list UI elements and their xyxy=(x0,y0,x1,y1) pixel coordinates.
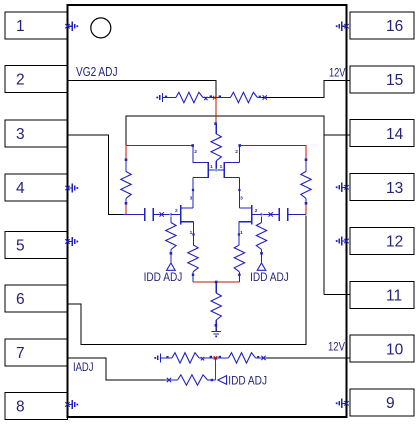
wire R6 to adjust arrow xyxy=(170,250,173,263)
wire R10 to ground xyxy=(215,320,218,332)
resistor R13 IADJ xyxy=(178,375,208,385)
svg-text:IADJ: IADJ xyxy=(73,360,94,374)
wire stub pin 11 xyxy=(324,294,350,296)
label 12V top xyxy=(329,66,346,80)
wire pin 6 to right gate node xyxy=(68,216,307,345)
node rail right resistor top xyxy=(305,158,308,171)
node R2 to 12V wire xyxy=(257,95,267,99)
wire gate node to R6 xyxy=(170,217,172,223)
pin 9 port symbol xyxy=(336,399,349,408)
wire stub pin 14 xyxy=(324,134,350,136)
wire top divider to pin 15 12V xyxy=(257,81,350,98)
label 12V bottom xyxy=(328,340,345,354)
svg-text:12: 12 xyxy=(386,234,403,251)
svg-text:2: 2 xyxy=(235,149,238,155)
svg-text:7: 7 xyxy=(16,345,25,362)
red wire drain rail right xyxy=(239,146,306,159)
resistor R1 xyxy=(176,92,203,102)
label IDD ADJ bottom xyxy=(228,373,267,387)
pin 16 port symbol xyxy=(336,22,349,31)
node right drain bias bottom xyxy=(305,198,308,204)
label IDD ADJ right xyxy=(250,270,289,284)
pin 10 box xyxy=(350,335,414,362)
pin 5 port symbol xyxy=(65,237,78,246)
wire and junction VG2 divider xyxy=(203,95,231,100)
pin 8 port symbol xyxy=(65,400,78,409)
red wire source rail xyxy=(193,281,239,283)
capacitor C1 xyxy=(123,208,171,221)
svg-text:16: 16 xyxy=(386,18,403,35)
wire R13 to wiper node xyxy=(208,379,216,381)
resistor R4 left drain bias xyxy=(121,171,131,198)
svg-text:9: 9 xyxy=(386,395,395,412)
node R12 to pin 10 wire xyxy=(256,356,267,360)
svg-text:2: 2 xyxy=(255,208,258,214)
ground xyxy=(212,332,221,338)
svg-text:IDD ADJ: IDD ADJ xyxy=(228,373,267,387)
wire lower divider to pin 10 12V xyxy=(266,357,350,359)
adjust arrow right IDD xyxy=(257,263,266,270)
resistor R12 xyxy=(229,353,256,363)
IC body U1 xyxy=(68,5,347,417)
transistor Q4 xyxy=(238,196,258,245)
resistor R11 xyxy=(172,353,199,363)
wire gate node to R7 xyxy=(261,217,263,223)
svg-text:12V: 12V xyxy=(329,66,346,80)
pin 12 box xyxy=(350,227,414,254)
resistor R8 left source xyxy=(188,245,198,272)
pin 2 box xyxy=(5,66,68,93)
resistor R6 IDD ADJ left xyxy=(166,223,176,250)
wire pin 7 IADJ to lower divider xyxy=(68,358,166,380)
svg-text:11: 11 xyxy=(386,288,402,305)
gate node upper FET pair xyxy=(208,164,224,172)
pin 15 box xyxy=(350,66,414,93)
pin 6 box xyxy=(5,285,68,312)
pin 8 box xyxy=(5,393,68,420)
wire R3 to gates xyxy=(215,161,217,170)
wire pin 3 to left gate node xyxy=(68,135,124,215)
svg-text:1: 1 xyxy=(240,230,243,236)
transistor Q1 xyxy=(191,144,208,208)
svg-text:1: 1 xyxy=(220,164,223,170)
resistor R3 gate bias xyxy=(211,134,221,161)
svg-text:15: 15 xyxy=(386,72,403,89)
svg-text:1: 1 xyxy=(190,230,193,236)
label IDD ADJ left xyxy=(144,270,183,284)
resistor R10 tail xyxy=(211,293,221,320)
wire IADJ to R13 xyxy=(166,378,178,382)
svg-text:8: 8 xyxy=(16,399,25,416)
svg-text:5: 5 xyxy=(16,238,25,255)
transistor Q2 xyxy=(224,144,241,208)
transistor Q3 xyxy=(175,196,195,245)
pin 13 box xyxy=(350,174,414,201)
pin 4 port symbol xyxy=(65,183,78,192)
capacitor C2 xyxy=(262,208,307,221)
svg-text:2: 2 xyxy=(16,72,25,89)
svg-text:1: 1 xyxy=(16,18,25,35)
node rail left resistor top xyxy=(125,158,128,171)
red wire drain rail left xyxy=(126,146,193,159)
pin 4 box xyxy=(5,174,68,201)
pin 13 port symbol xyxy=(336,183,349,192)
pin 3 box xyxy=(5,120,68,147)
wire VG2 port to R1 xyxy=(163,96,176,98)
svg-text:6: 6 xyxy=(16,291,25,308)
svg-text:3: 3 xyxy=(190,196,193,202)
svg-text:3: 3 xyxy=(240,196,243,202)
wire lower port to R11 xyxy=(161,356,173,358)
pin 14 box xyxy=(350,120,414,147)
node gate bias top xyxy=(214,122,217,133)
wire R9 to source rail xyxy=(238,272,240,282)
svg-text:13: 13 xyxy=(386,180,403,197)
wire R8 to source rail xyxy=(192,272,194,282)
pin 7 box xyxy=(5,339,68,366)
pin 16 box xyxy=(350,12,414,39)
pin 9 box xyxy=(350,389,414,416)
pin 1 box xyxy=(5,12,68,39)
red wire lower divider tap xyxy=(215,358,217,380)
svg-text:1: 1 xyxy=(210,164,213,170)
resistor R7 IDD ADJ right xyxy=(256,223,266,250)
svg-text:12V: 12V xyxy=(328,340,345,354)
svg-text:3: 3 xyxy=(16,126,25,143)
node source rail center xyxy=(215,281,218,293)
resistor R9 right source xyxy=(234,245,244,272)
svg-text:2: 2 xyxy=(175,208,178,214)
wire pin 2 VG2 ADJ to top divider xyxy=(68,81,217,98)
svg-text:2: 2 xyxy=(194,149,197,155)
gate node Q3 xyxy=(169,213,181,217)
red wire left bias resistor bottom xyxy=(125,204,127,214)
pin-1 indicator circle xyxy=(91,18,111,38)
svg-text:14: 14 xyxy=(386,126,404,143)
label VG2 ADJ xyxy=(76,64,118,79)
voltage source port VG2 xyxy=(156,93,162,102)
label IADJ xyxy=(73,360,94,374)
pin 1 port symbol xyxy=(65,22,78,31)
adjust arrow left IDD xyxy=(167,263,176,270)
red wire top divider tap xyxy=(215,98,217,123)
svg-text:VG2 ADJ: VG2 ADJ xyxy=(76,64,118,79)
gate node Q4 xyxy=(252,213,264,217)
voltage source port lower 12V xyxy=(154,353,160,362)
svg-text:10: 10 xyxy=(386,341,404,358)
svg-text:IDD ADJ: IDD ADJ xyxy=(144,270,183,284)
wire rail to pins 14 and 11 xyxy=(126,116,324,295)
pin 5 box xyxy=(5,232,68,259)
node left drain bias bottom xyxy=(125,198,128,204)
wiper arrow IDD ADJ xyxy=(218,376,227,385)
pin 12 port symbol xyxy=(336,236,349,245)
svg-text:4: 4 xyxy=(16,180,25,197)
resistor R2 xyxy=(230,92,257,102)
resistor R5 right drain bias xyxy=(301,171,311,198)
wire and junction lower divider xyxy=(199,356,229,361)
wire R7 to adjust arrow xyxy=(260,250,263,263)
pin 11 box xyxy=(350,281,414,308)
svg-text:IDD ADJ: IDD ADJ xyxy=(250,270,289,284)
red wire right bias resistor bottom xyxy=(305,204,307,214)
